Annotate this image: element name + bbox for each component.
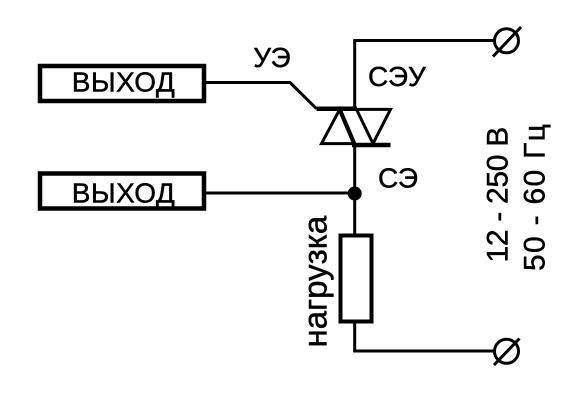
triac VS left triangle xyxy=(322,109,355,143)
triac VS right triangle xyxy=(357,109,391,143)
wire: load to lower mains terminal xyxy=(355,322,494,352)
wire: lower box to node СЭ xyxy=(206,192,355,195)
wire: triac top to upper mains terminal xyxy=(355,41,494,109)
node СЭ junction dot xyxy=(348,187,362,201)
svg-text:нагрузка: нагрузка xyxy=(297,215,334,347)
svg-text:СЭУ: СЭУ xyxy=(368,61,426,92)
triac VS top bar (MT2 terminal bar) xyxy=(317,106,358,111)
terminal X2 (lower mains connection) xyxy=(495,339,519,363)
svg-text:12 - 250 В: 12 - 250 В xyxy=(482,127,515,262)
triac VS left triangle right edge (thick) xyxy=(340,109,355,143)
svg-text:ВЫХОД: ВЫХОД xyxy=(72,178,175,209)
load resistor нагрузка xyxy=(341,236,372,322)
svg-text:50 - 60 Гц: 50 - 60 Гц xyxy=(519,123,552,271)
wire: gate lead УЭ from upper box to triac gate xyxy=(206,83,317,109)
output block box ВЫХОД (lower) xyxy=(40,174,204,209)
wire: triac bottom to node СЭ and load xyxy=(353,145,356,235)
terminal X1 slash xyxy=(493,27,521,57)
output block box ВЫХОД (upper) xyxy=(40,66,204,101)
svg-text:СЭ: СЭ xyxy=(378,163,418,194)
terminal X2 slash xyxy=(494,339,520,366)
svg-text:ВЫХОД: ВЫХОД xyxy=(72,67,175,98)
triac VS bottom bar (MT1 terminal bar) xyxy=(352,143,391,148)
terminal X1 (upper mains connection) xyxy=(495,29,519,53)
svg-text:УЭ: УЭ xyxy=(253,42,290,73)
